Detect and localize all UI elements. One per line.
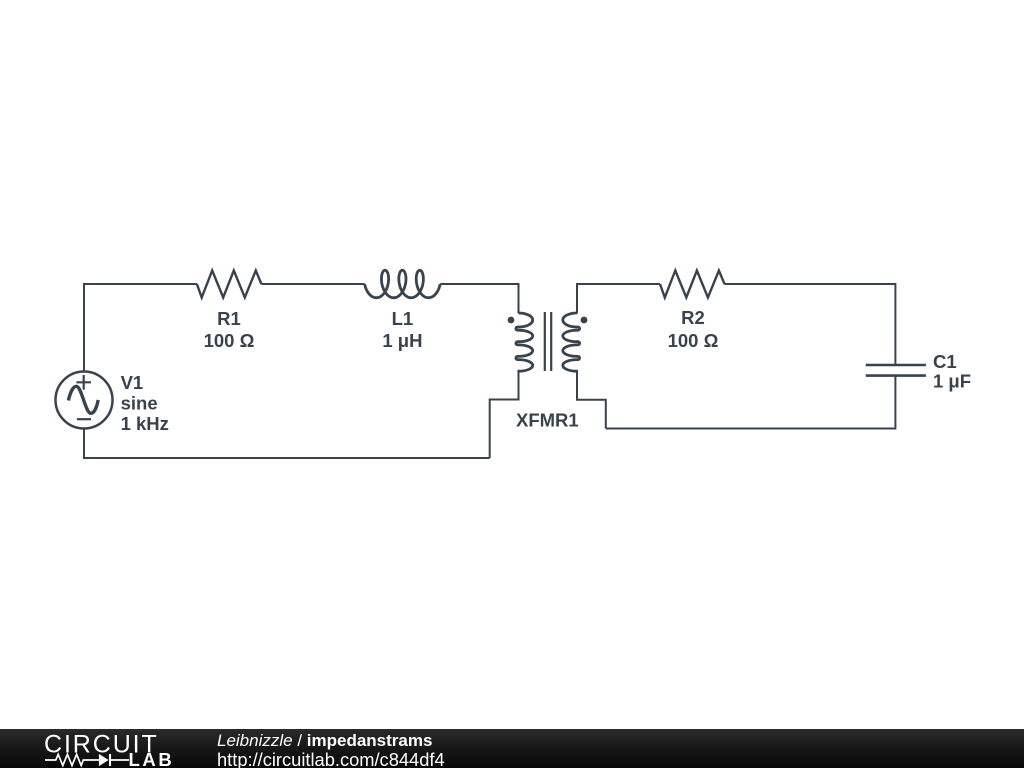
svg-text:100 Ω: 100 Ω bbox=[204, 330, 255, 351]
wire bottom left bbox=[84, 429, 490, 458]
svg-text:L1: L1 bbox=[392, 308, 414, 329]
svg-text:R2: R2 bbox=[681, 307, 705, 328]
resistor R1 bbox=[197, 271, 262, 298]
transformer XFMR1 primary dot bbox=[508, 317, 515, 324]
voltage source V1 sine bbox=[68, 386, 98, 413]
CircuitLab footer bar bbox=[0, 729, 1024, 768]
wire bottom right bbox=[606, 376, 896, 429]
transformer XFMR1 core bars bbox=[545, 312, 551, 371]
resistor R2 bbox=[660, 271, 725, 298]
svg-text:1 kHz: 1 kHz bbox=[121, 413, 169, 434]
wire R1 to L1 bbox=[261, 283, 364, 285]
wire XFMR1 secondary bottom step bbox=[577, 371, 606, 429]
voltage source V1 plus bbox=[76, 375, 91, 390]
svg-text:LAB: LAB bbox=[129, 749, 175, 768]
svg-text:1 μF: 1 μF bbox=[933, 371, 971, 392]
wire C1 top to top-right corner bbox=[725, 284, 896, 365]
inductor L1 bbox=[365, 270, 441, 297]
svg-text:100 Ω: 100 Ω bbox=[668, 330, 719, 351]
svg-text:sine: sine bbox=[121, 393, 158, 414]
wire XFMR1 primary bottom step bbox=[490, 371, 519, 458]
wire top-left: V1 top to R1 bbox=[84, 284, 197, 371]
svg-text:1 μH: 1 μH bbox=[382, 330, 422, 351]
footer title bbox=[217, 731, 432, 751]
transformer XFMR1 secondary winding bbox=[563, 313, 580, 371]
wire L1 to XFMR1 primary top bbox=[440, 284, 518, 314]
svg-text:R1: R1 bbox=[217, 308, 241, 329]
footer url bbox=[217, 749, 445, 771]
wire R2 to XFMR1 secondary top bbox=[577, 284, 660, 314]
CircuitLab logo bbox=[0, 729, 290, 768]
svg-text:XFMR1: XFMR1 bbox=[516, 410, 579, 431]
voltage source V1 minus bbox=[77, 418, 91, 420]
svg-text:C1: C1 bbox=[933, 351, 957, 372]
voltage source V1 circle bbox=[56, 372, 113, 429]
transformer XFMR1 primary winding bbox=[516, 313, 533, 371]
svg-text:V1: V1 bbox=[121, 372, 144, 393]
transformer XFMR1 secondary dot bbox=[581, 317, 588, 324]
capacitor C1 plates bbox=[866, 365, 926, 376]
